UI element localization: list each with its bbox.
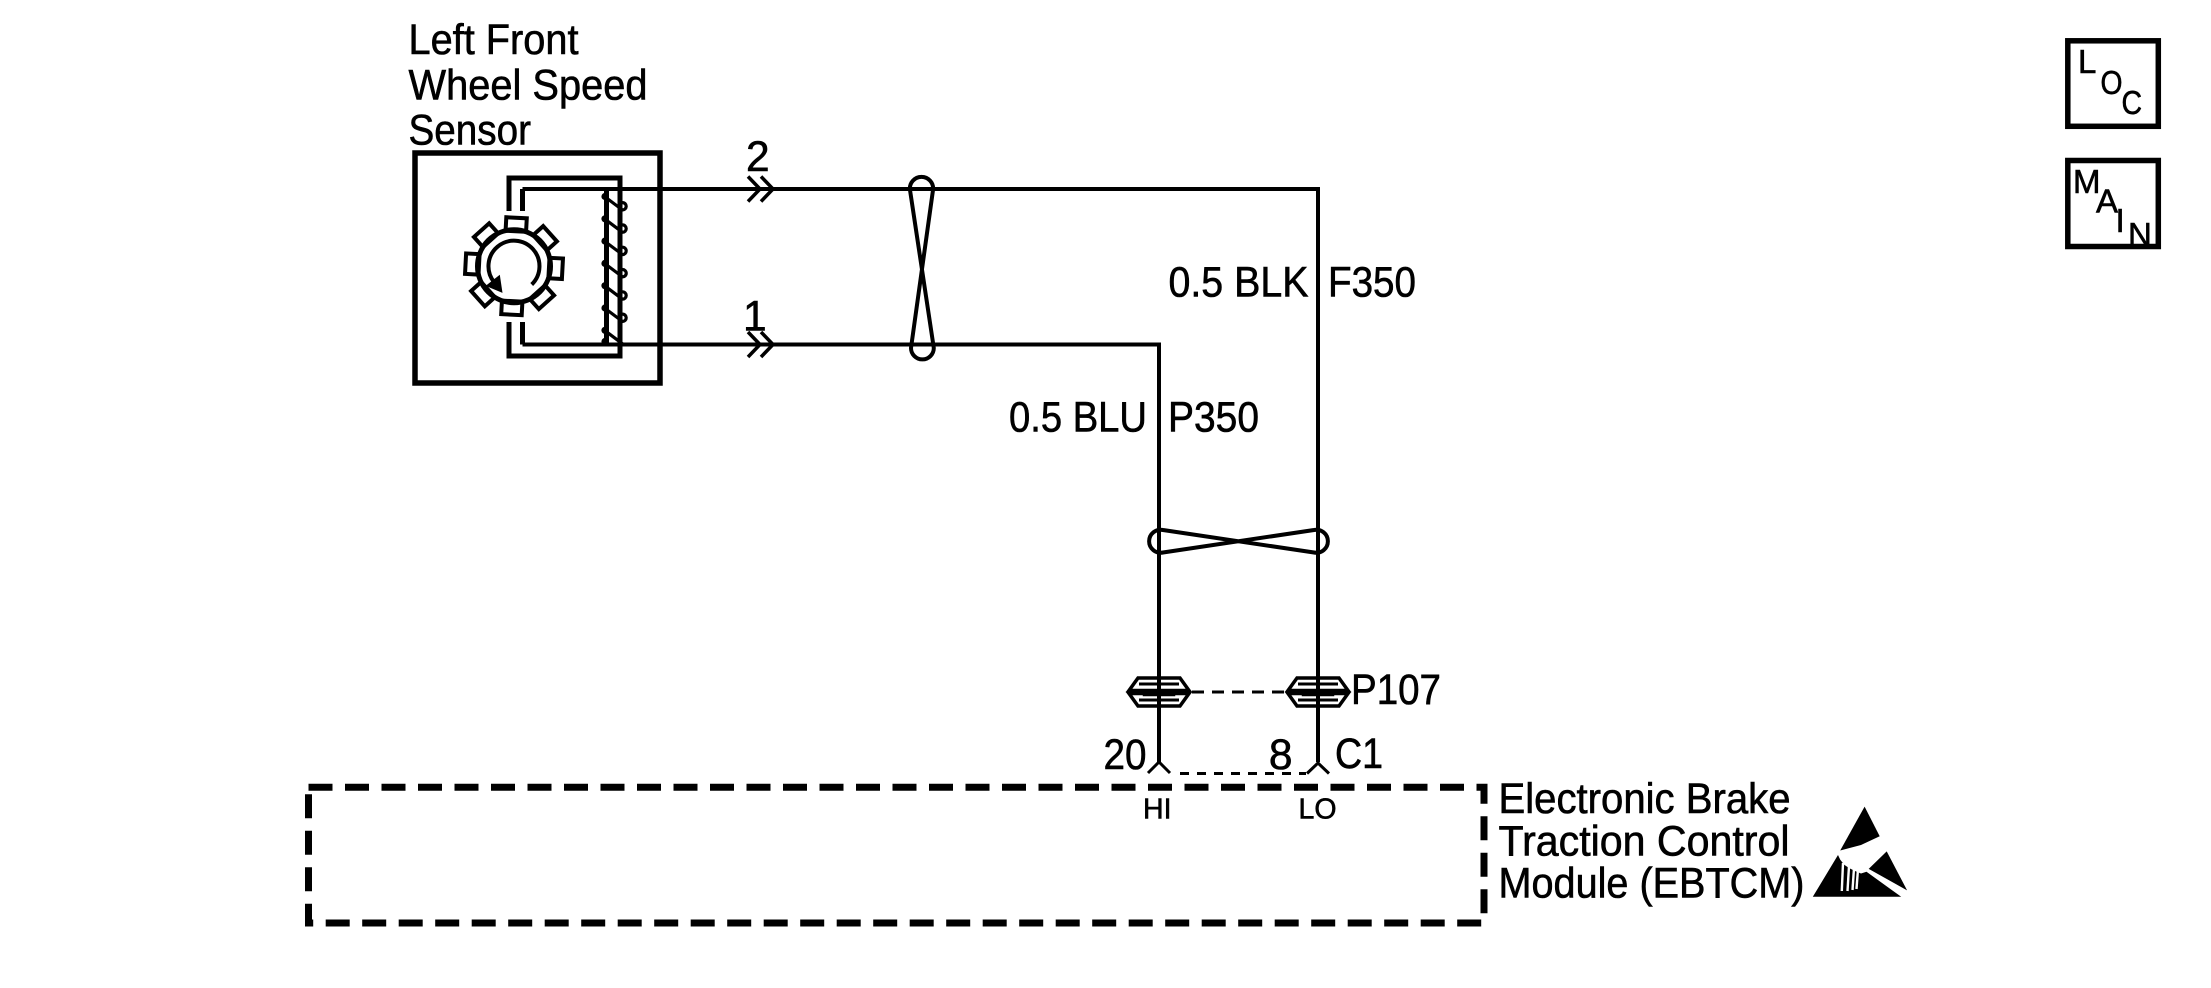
svg-text:Wheel Speed: Wheel Speed <box>409 62 648 109</box>
svg-text:2: 2 <box>746 134 770 181</box>
svg-text:F350: F350 <box>1328 260 1416 307</box>
dashed link between splice halves <box>1192 691 1288 694</box>
svg-text:Module (EBTCM): Module (EBTCM) <box>1499 861 1805 908</box>
svg-text:C: C <box>2122 84 2143 121</box>
EBTCM dashed module box <box>309 787 1485 923</box>
pin chevron 20 <box>1148 762 1170 773</box>
svg-text:P350: P350 <box>1168 395 1259 442</box>
sensor box (Left Front Wheel Speed Sensor outline) <box>415 153 660 383</box>
svg-text:Electronic Brake: Electronic Brake <box>1499 776 1791 823</box>
label: Left Front Wheel Speed Sensor <box>409 17 648 155</box>
ESD warning symbol <box>1813 807 1907 897</box>
pin chevron 8 <box>1307 763 1329 774</box>
svg-text:HI: HI <box>1143 794 1172 826</box>
dashed line between pins <box>1180 772 1306 775</box>
svg-text:0.5 BLK: 0.5 BLK <box>1169 260 1309 307</box>
wire label 0.5 BLK F350 <box>1169 260 1417 307</box>
magnetic core outer bracket <box>509 178 620 356</box>
svg-text:C1: C1 <box>1335 731 1383 778</box>
MAIN legend box <box>2068 161 2159 247</box>
wire 1 (bottom, sensor to corner, 0.5 BLU) <box>523 345 1160 763</box>
twisted pair symbol (vertical) <box>910 177 934 360</box>
svg-text:I: I <box>2116 202 2125 239</box>
svg-text:P107: P107 <box>1351 667 1441 714</box>
svg-text:LO: LO <box>1299 794 1337 826</box>
svg-text:Sensor: Sensor <box>409 108 532 155</box>
connector chevrons wire 2 <box>748 177 773 202</box>
svg-text:20: 20 <box>1104 732 1147 779</box>
connector chevrons wire 1 <box>748 332 773 357</box>
wire 2 (top, sensor to corner, 0.5 BLK) <box>523 189 1319 762</box>
inline connector splice left (P107) <box>1129 678 1189 706</box>
svg-text:Traction Control: Traction Control <box>1499 818 1790 865</box>
twisted pair symbol (horizontal) <box>1149 530 1328 553</box>
rotation arrow <box>488 241 539 285</box>
wire label 0.5 BLU P350 <box>1009 395 1259 442</box>
svg-text:8: 8 <box>1269 732 1293 779</box>
svg-text:N: N <box>2128 216 2152 253</box>
magnetic core inner bracket <box>523 189 607 345</box>
coil winding on core <box>605 197 627 344</box>
svg-text:O: O <box>2101 64 2123 101</box>
svg-text:Left Front: Left Front <box>409 17 579 64</box>
LOC legend box <box>2068 41 2159 127</box>
svg-text:0.5 BLU: 0.5 BLU <box>1009 395 1147 442</box>
inline connector splice right (P107) <box>1288 678 1348 706</box>
tone wheel (gear) <box>465 217 563 315</box>
svg-text:L: L <box>2078 43 2096 80</box>
module label: Electronic Brake Traction Control Module (EBTCM) <box>1499 776 1805 908</box>
